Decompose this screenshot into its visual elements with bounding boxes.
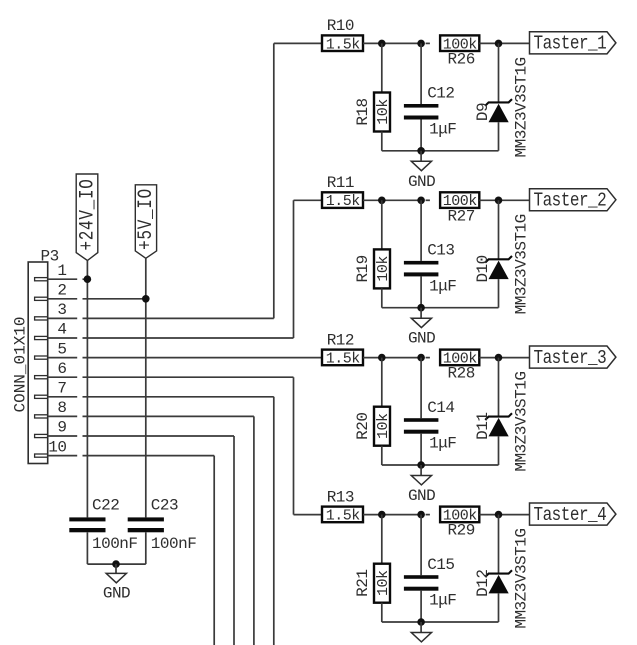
svg-text:GND: GND xyxy=(408,487,435,505)
svg-text:10k: 10k xyxy=(375,413,392,439)
svg-text:R19: R19 xyxy=(354,255,372,282)
svg-text:100nF: 100nF xyxy=(151,535,197,553)
svg-text:1μF: 1μF xyxy=(429,277,456,295)
svg-text:R18: R18 xyxy=(354,98,372,125)
svg-text:R12: R12 xyxy=(327,331,354,349)
svg-text:MM3Z3V3ST1G: MM3Z3V3ST1G xyxy=(513,529,531,629)
svg-text:10: 10 xyxy=(48,438,66,456)
svg-text:1μF: 1μF xyxy=(429,592,456,610)
svg-text:1.5k: 1.5k xyxy=(326,36,361,53)
svg-text:D11: D11 xyxy=(474,413,492,440)
svg-text:C14: C14 xyxy=(427,399,454,417)
svg-text:1: 1 xyxy=(57,262,66,280)
svg-text:3: 3 xyxy=(57,301,66,319)
svg-text:10k: 10k xyxy=(375,256,392,282)
svg-text:8: 8 xyxy=(57,399,66,417)
svg-text:4: 4 xyxy=(57,321,66,339)
svg-text:Taster_1: Taster_1 xyxy=(534,33,607,55)
svg-text:Taster_2: Taster_2 xyxy=(534,190,607,212)
svg-text:7: 7 xyxy=(57,380,66,398)
svg-text:R29: R29 xyxy=(448,522,475,540)
svg-text:C22: C22 xyxy=(92,496,119,514)
svg-text:Taster_4: Taster_4 xyxy=(534,505,607,527)
svg-text:1.5k: 1.5k xyxy=(326,351,361,368)
svg-text:MM3Z3V3ST1G: MM3Z3V3ST1G xyxy=(513,57,531,157)
svg-text:D10: D10 xyxy=(474,255,492,282)
svg-text:6: 6 xyxy=(57,360,66,378)
svg-text:D9: D9 xyxy=(474,103,492,121)
svg-text:MM3Z3V3ST1G: MM3Z3V3ST1G xyxy=(513,372,531,472)
svg-text:100nF: 100nF xyxy=(92,535,138,553)
svg-text:1μF: 1μF xyxy=(429,121,456,139)
svg-text:D12: D12 xyxy=(474,570,492,597)
svg-text:CONN_01X10: CONN_01X10 xyxy=(12,316,30,412)
svg-text:R27: R27 xyxy=(448,207,475,225)
svg-text:1.5k: 1.5k xyxy=(326,508,361,525)
svg-text:R28: R28 xyxy=(448,365,475,383)
svg-text:10k: 10k xyxy=(375,570,392,596)
svg-text:1μF: 1μF xyxy=(429,435,456,453)
svg-text:P3: P3 xyxy=(41,247,59,265)
svg-text:MM3Z3V3ST1G: MM3Z3V3ST1G xyxy=(513,214,531,314)
svg-text:+24V_IO: +24V_IO xyxy=(77,178,99,250)
svg-text:2: 2 xyxy=(57,282,66,300)
svg-text:C15: C15 xyxy=(427,556,454,574)
svg-text:R11: R11 xyxy=(327,174,354,192)
svg-text:10k: 10k xyxy=(375,99,392,125)
svg-text:5: 5 xyxy=(57,340,66,358)
svg-text:GND: GND xyxy=(103,585,130,603)
svg-text:9: 9 xyxy=(57,419,66,437)
svg-text:R10: R10 xyxy=(327,17,354,35)
svg-text:R20: R20 xyxy=(354,413,372,440)
svg-text:R13: R13 xyxy=(327,488,354,506)
svg-text:C13: C13 xyxy=(427,242,454,260)
svg-text:Taster_3: Taster_3 xyxy=(534,348,607,370)
svg-text:C12: C12 xyxy=(427,85,454,103)
svg-text:GND: GND xyxy=(408,330,435,348)
svg-text:GND: GND xyxy=(408,173,435,191)
svg-text:+5V_IO: +5V_IO xyxy=(136,188,158,250)
svg-text:R21: R21 xyxy=(354,570,372,597)
svg-text:1.5k: 1.5k xyxy=(326,193,361,210)
svg-text:C23: C23 xyxy=(151,496,178,514)
svg-text:R26: R26 xyxy=(448,51,475,69)
